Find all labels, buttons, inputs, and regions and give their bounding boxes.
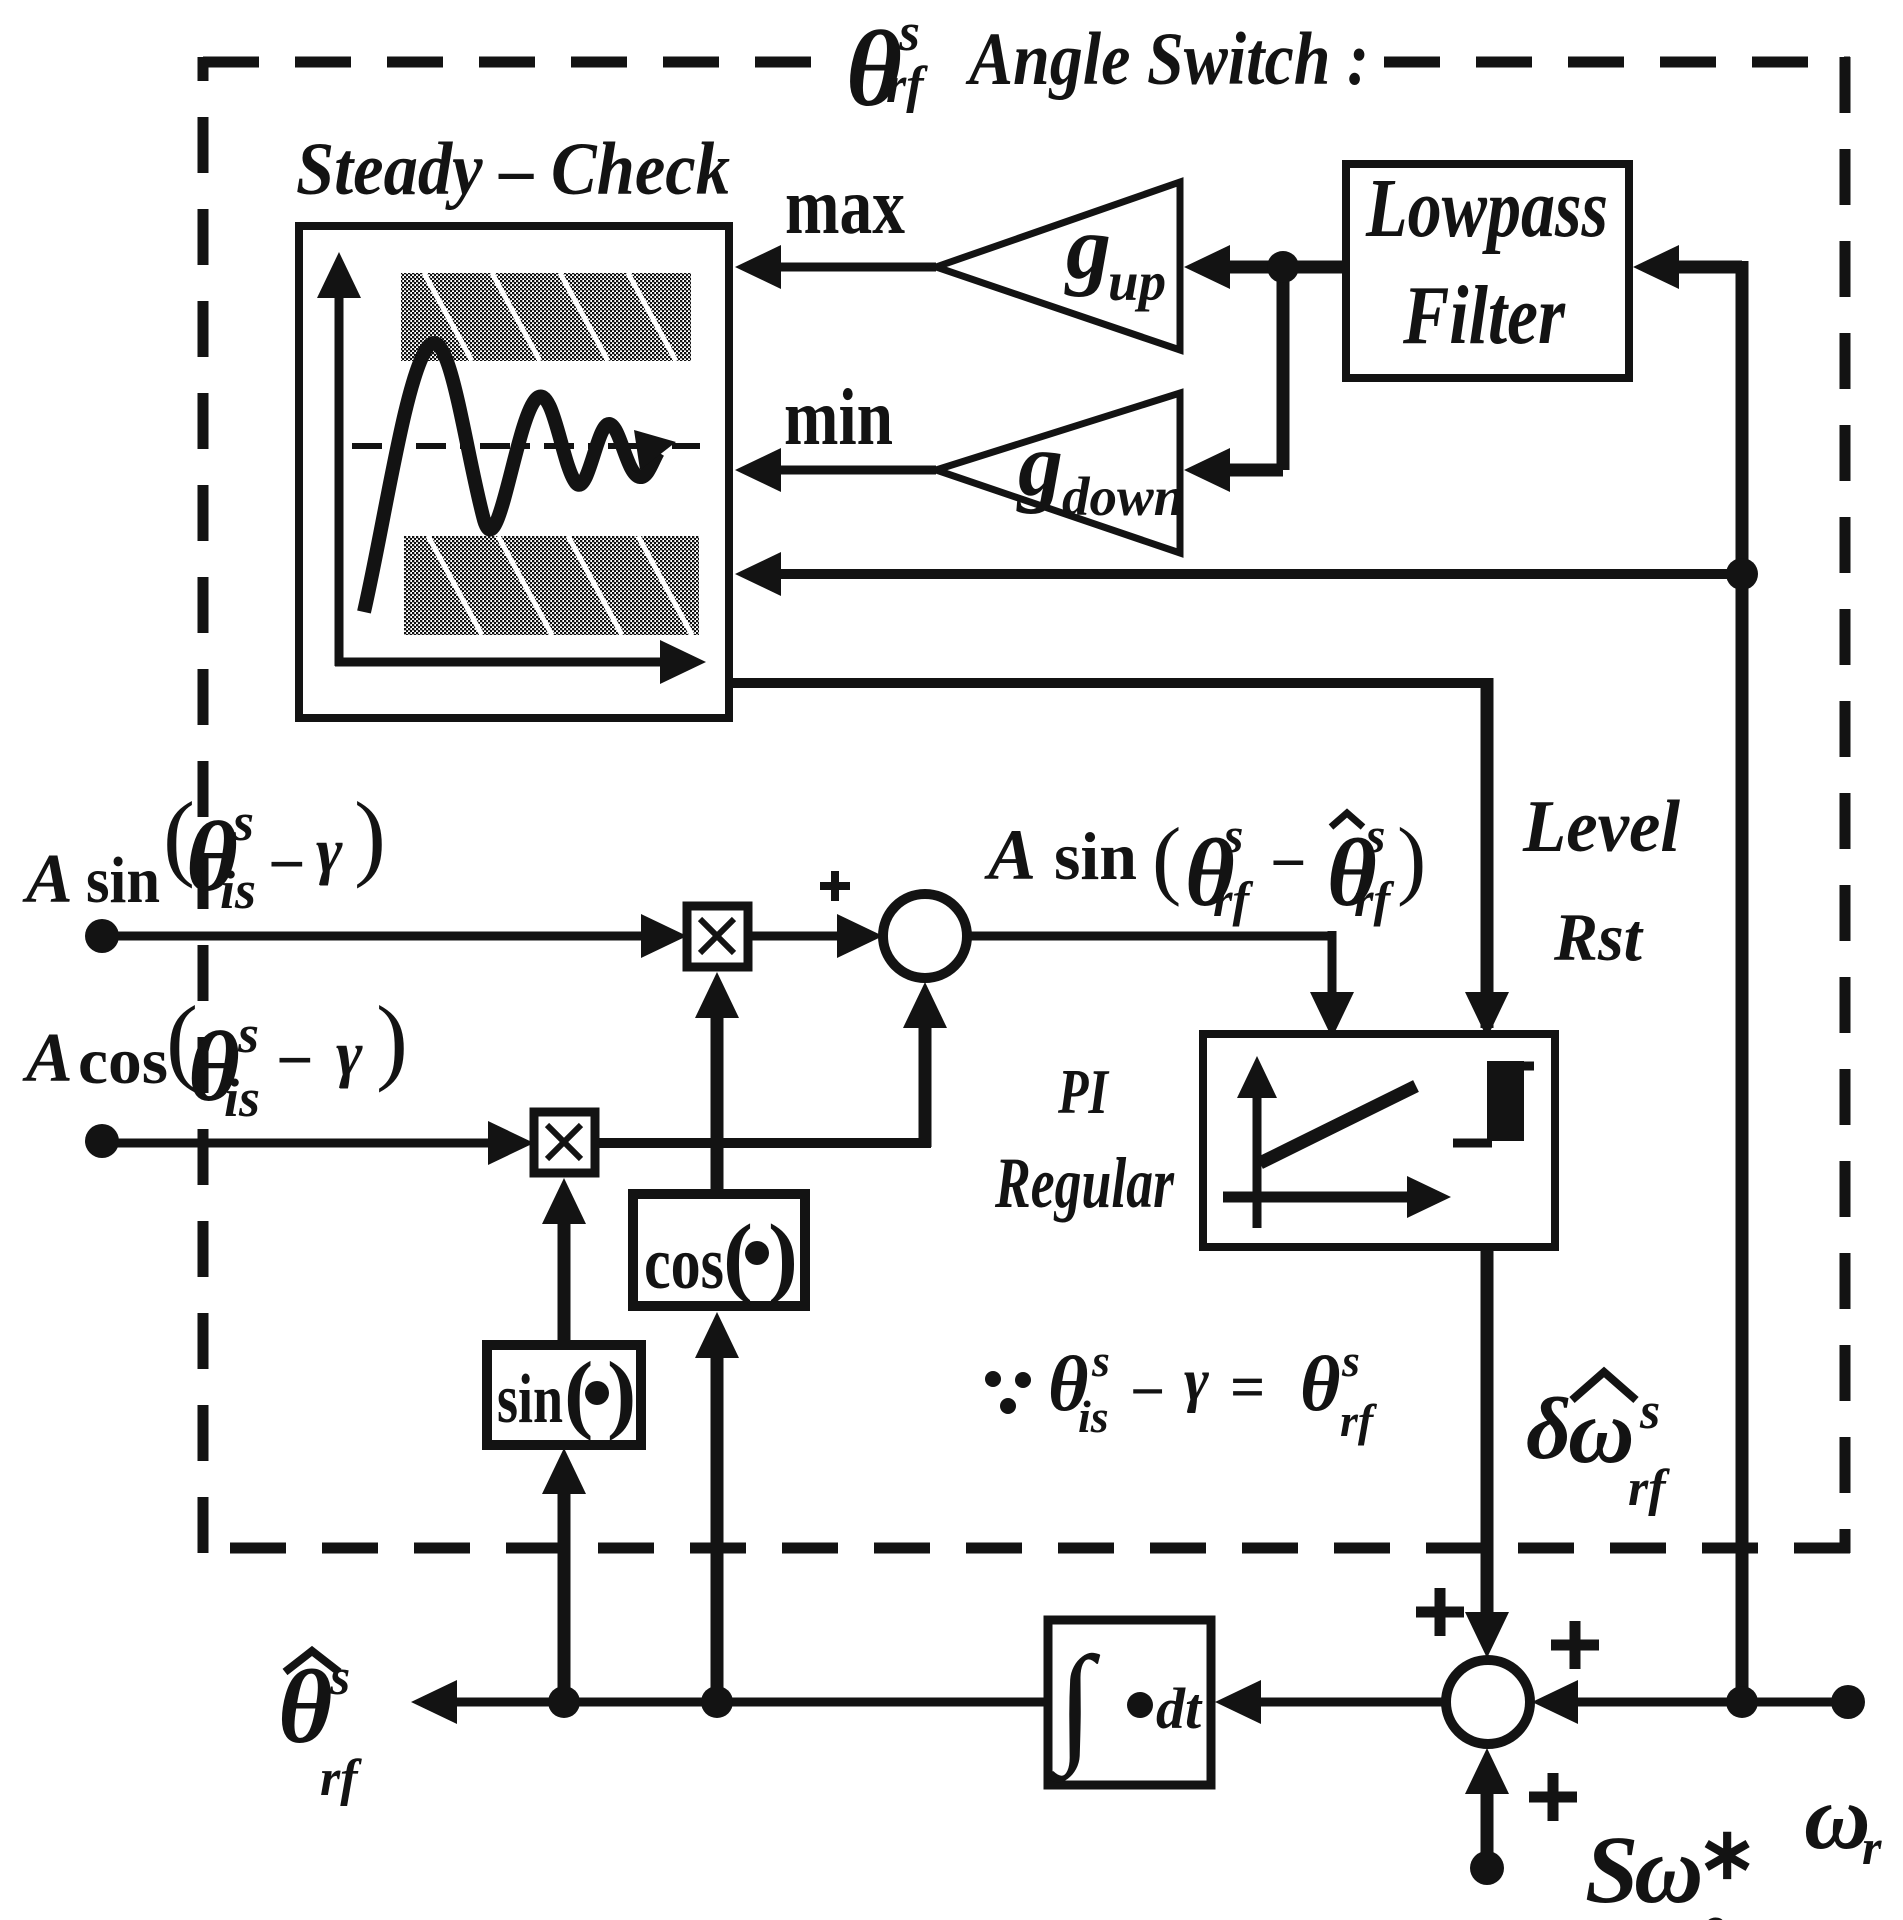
svg-text:δ: δ (1526, 1381, 1571, 1478)
label: because theta_is^s - gamma = theta_rf^s (985, 1335, 1378, 1446)
plot y-axis (335, 290, 344, 666)
svg-text:−: − (1270, 827, 1306, 898)
wire: multiplier X1 to summing circle 1 (748, 932, 845, 941)
svg-text:rf: rf (1354, 871, 1394, 927)
label S omega_e star (1585, 1814, 1757, 1920)
svg-text:s: s (1223, 807, 1243, 863)
svg-text:cos: cos (78, 1025, 168, 1098)
node: junction dot feedback to cos (701, 1686, 733, 1718)
svg-text:max: max (785, 163, 905, 251)
wire: junction to g_up input (1222, 261, 1283, 274)
svg-text:A: A (22, 841, 73, 918)
svg-text:γ: γ (1184, 1347, 1209, 1413)
svg-text:ω: ω (1804, 1766, 1871, 1868)
multiplier X2 (534, 1112, 595, 1173)
multiplier X1 (687, 906, 748, 967)
svg-text:is: is (220, 860, 256, 920)
PI inner axes (1253, 1095, 1262, 1228)
svg-text:Level: Level (1522, 786, 1680, 868)
plus sign top-right of circle 2 (1551, 1621, 1599, 1669)
label theta_rf^s hat output (278, 1648, 362, 1807)
plot x-axis (335, 658, 672, 667)
summing circle 1 (883, 894, 967, 978)
wire: third input into Steady-Check (772, 569, 1742, 579)
wire: summing circle 2 to integrator (1250, 1698, 1446, 1707)
svg-text:ω: ω (1634, 1816, 1703, 1920)
damped oscillation curve (364, 343, 658, 612)
svg-text:): ) (1397, 811, 1426, 908)
svg-text:s: s (1341, 1335, 1360, 1386)
svg-text:(: ( (1152, 811, 1181, 908)
svg-text:is: is (224, 1068, 260, 1128)
svg-text:Steady – Check: Steady – Check (296, 128, 730, 211)
plus sign at summing circle 1 (820, 871, 850, 901)
svg-text:s: s (1091, 1335, 1110, 1386)
label: delta omega hat rf s (1526, 1372, 1670, 1517)
svg-text:sin: sin (1054, 818, 1137, 894)
svg-text:dt: dt (1156, 1676, 1203, 1741)
plus sign top-left of circle 2 (1416, 1588, 1464, 1636)
dash-dot steady line (352, 443, 700, 449)
svg-text:min: min (784, 374, 893, 462)
Lowpass Filter box (1346, 164, 1629, 378)
wire: multiplier X2 output to summing circle 1 bottom (595, 1138, 931, 1148)
label: A sin(theta_is^s - gamma) (22, 782, 386, 920)
svg-text:Regular: Regular (994, 1143, 1174, 1223)
wire: PI output down to summing circle 2 (1481, 1247, 1494, 1632)
node: omega_r input dot (1831, 1685, 1865, 1719)
node: S omega star e input dot (1470, 1851, 1504, 1885)
wire: Steady-Check output to Level/Rst line (729, 678, 1487, 688)
wire: feedback into Lowpass Filter (1666, 261, 1742, 274)
svg-text:r: r (1862, 1819, 1882, 1875)
svg-text:Lowpass: Lowpass (1365, 162, 1608, 255)
svg-text:−: − (1130, 1358, 1165, 1426)
wire: S omega into summing circle 2 bottom (1481, 1782, 1494, 1868)
svg-text:=: = (1230, 1354, 1265, 1422)
node: input A sin dot (85, 919, 119, 953)
lower hatched band (404, 536, 699, 635)
upper hatched band (401, 273, 691, 361)
gain g_down triangle (936, 393, 1180, 553)
Steady-Check box (299, 226, 729, 718)
wire: cos output up into multiplier X1 (711, 1002, 724, 1194)
wire: feedback up into sin block (558, 1478, 571, 1702)
dashed boundary: Angle Switch block (198, 57, 1850, 1553)
svg-text:sin: sin (497, 1361, 563, 1438)
svg-text:γ: γ (316, 815, 343, 886)
wire: omega_r into summing circle 2 (1566, 1698, 1848, 1707)
svg-text:s: s (232, 792, 254, 852)
title: theta_rf^s Angle Switch (846, 2, 1369, 129)
svg-text:rf: rf (886, 57, 928, 114)
label: A cos(theta_is^s - gamma) (22, 986, 408, 1128)
svg-text:rf: rf (320, 1750, 362, 1807)
node: junction dot after Lowpass Filter (1267, 251, 1299, 283)
svg-text:Rst: Rst (1553, 899, 1644, 975)
svg-text:up: up (1108, 251, 1166, 312)
svg-text:down: down (1062, 466, 1184, 527)
wire: A cos input line to multiplier X2 (102, 1139, 499, 1148)
svg-text:A: A (22, 1020, 73, 1097)
wire: Lowpass Filter output to junction (1283, 261, 1346, 274)
svg-text:A: A (984, 815, 1036, 895)
svg-text:is: is (1078, 1391, 1109, 1442)
sin block (487, 1345, 641, 1445)
node: junction on feedback at Steady-Check third input (1726, 558, 1758, 590)
wire: junction down to g_down input (1277, 261, 1290, 470)
PI ramp line (1260, 1086, 1416, 1163)
svg-text:PI: PI (1057, 1056, 1109, 1127)
svg-text:−: − (276, 1024, 314, 1097)
svg-text:Filter: Filter (1402, 269, 1566, 362)
svg-text:s: s (1365, 807, 1385, 863)
wire: integrator output feedback to the left (455, 1698, 1048, 1707)
svg-text:): ) (376, 986, 408, 1093)
svg-text:): ) (768, 1207, 798, 1306)
svg-text:S: S (1585, 1816, 1638, 1920)
svg-text:rf: rf (1213, 871, 1253, 927)
svg-text:): ) (607, 1345, 636, 1442)
node: junction dot on right feedback at omega line (1726, 1686, 1758, 1718)
wire: summing circle 1 output to PI block (967, 932, 1332, 941)
cos block (633, 1194, 805, 1306)
svg-text:cos: cos (644, 1223, 724, 1305)
wire: feedback up into cos block (711, 1342, 724, 1702)
wire: sin output up into multiplier X2 (558, 1208, 571, 1345)
integrator block (1048, 1620, 1211, 1785)
svg-text:s: s (898, 2, 920, 62)
svg-text:s: s (237, 1004, 259, 1064)
svg-text:rf: rf (1628, 1460, 1670, 1517)
svg-text:θ: θ (1300, 1340, 1341, 1427)
svg-text:rf: rf (1340, 1395, 1378, 1446)
PI saturation symbol (1453, 1139, 1492, 1148)
svg-text:e: e (1700, 1895, 1725, 1920)
svg-text:s: s (329, 1649, 350, 1706)
wire: right vertical feedback line (1736, 261, 1749, 1702)
svg-text:g: g (1016, 416, 1063, 515)
svg-text:γ: γ (336, 1018, 363, 1089)
plus sign bottom-right of circle 2 (1529, 1773, 1577, 1821)
svg-text:−: − (268, 828, 306, 901)
node: input A cos dot (85, 1124, 119, 1158)
svg-text:): ) (354, 782, 386, 889)
wire: A sin input line to multiplier X1 (102, 932, 652, 941)
summing circle 2 (1446, 1660, 1530, 1744)
svg-text:sin: sin (86, 844, 160, 917)
svg-text:s: s (1639, 1383, 1660, 1440)
svg-text:g: g (1064, 199, 1111, 298)
svg-text:∗: ∗ (1697, 1814, 1757, 1894)
gain g_up triangle (936, 182, 1180, 350)
svg-text:Angle Switch :: Angle Switch : (965, 18, 1369, 101)
label: A sin(theta_rf^s - theta_rf^s hat) (984, 807, 1426, 927)
node: junction dot feedback to sin (548, 1686, 580, 1718)
